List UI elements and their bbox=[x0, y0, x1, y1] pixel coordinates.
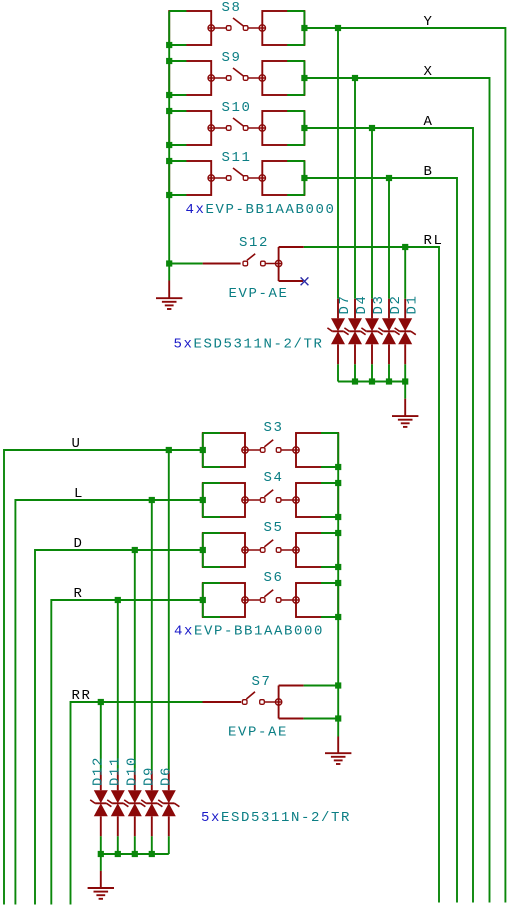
svg-text:4xEVP-BB1AAB000: 4xEVP-BB1AAB000 bbox=[174, 624, 324, 640]
junction diode bus x=372 bbox=[369, 378, 375, 384]
svg-text:S6: S6 bbox=[264, 570, 284, 586]
svg-text:D1: D1 bbox=[404, 294, 420, 314]
wire net U vertical bbox=[3, 449, 5, 904]
junction net B at pin bbox=[301, 175, 307, 181]
wire dropper to D10 bbox=[134, 550, 136, 771]
wire stubs over S6 left box bbox=[203, 583, 220, 617]
wire D7 to gnd bus bbox=[337, 364, 339, 381]
lever S7 bbox=[246, 692, 255, 699]
lever S6 bbox=[264, 590, 273, 597]
wire D9 to gnd bus bbox=[151, 836, 153, 854]
wire net L horizontal bbox=[15, 499, 202, 501]
wire stubs over S5 right box bbox=[321, 533, 338, 567]
TVS diode D1 bbox=[395, 318, 416, 344]
svg-text:RL: RL bbox=[424, 233, 444, 249]
lead D12 bottom bbox=[100, 816, 102, 836]
switch S12 bbox=[203, 247, 304, 281]
terminal S8 contact a bbox=[226, 26, 231, 31]
terminal S6 contact b bbox=[276, 598, 281, 603]
junction net R at pin bbox=[200, 597, 206, 603]
wire net B horizontal bbox=[304, 177, 457, 179]
svg-text:D9: D9 bbox=[141, 766, 157, 786]
junction right bus y=467 bbox=[335, 464, 341, 470]
terminal S11 contact b bbox=[243, 176, 248, 181]
wire dropper to D4 bbox=[354, 78, 356, 299]
lead D6 bottom bbox=[168, 816, 170, 836]
pin circle S11 throw bbox=[259, 175, 265, 181]
switch S4 bbox=[203, 483, 338, 517]
junction net U at pin bbox=[200, 447, 206, 453]
svg-text:S3: S3 bbox=[264, 420, 284, 436]
wire S7 arm top to bus bbox=[304, 685, 339, 687]
switch S9 bbox=[169, 61, 304, 95]
wire D4 to gnd bus bbox=[354, 364, 356, 381]
junction net X dropper bbox=[352, 75, 358, 81]
TVS diode D3 bbox=[361, 318, 382, 344]
TVS diode D6 bbox=[158, 790, 179, 816]
svg-text:S9: S9 bbox=[222, 50, 242, 66]
wire D10 to gnd bus bbox=[134, 836, 136, 854]
TVS diode D10 bbox=[124, 790, 145, 816]
wire dropper to D3 bbox=[371, 128, 373, 299]
ground GND1 left bus bbox=[156, 281, 182, 310]
terminal S4 contact a bbox=[260, 498, 265, 503]
pin circle S6 throw bbox=[293, 597, 299, 603]
svg-text:D4: D4 bbox=[354, 294, 370, 314]
junction right bus y=483 bbox=[335, 480, 341, 486]
wire gnd lead bottom diode bus bbox=[100, 854, 102, 871]
junction net L at pin bbox=[200, 497, 206, 503]
wire stubs over S9 left box bbox=[169, 61, 186, 95]
terminal S8 contact b bbox=[243, 26, 248, 31]
wire dropper to D9 bbox=[151, 500, 153, 771]
wire D12 to gnd bus bbox=[100, 836, 102, 854]
switch S11 bbox=[169, 161, 304, 195]
junction left bus y=111 bbox=[166, 108, 172, 114]
wire net D horizontal bbox=[35, 549, 203, 551]
junction net RR dropper bbox=[98, 699, 104, 705]
wire stubs over S4 left box bbox=[203, 483, 220, 517]
svg-text:EVP-AE: EVP-AE bbox=[229, 286, 289, 302]
lead D4 bottom bbox=[354, 344, 356, 364]
wire D6 to gnd bus bbox=[168, 836, 170, 854]
junction bottom diode bus x=100.8 bbox=[98, 851, 104, 857]
pin circle S9 pole bbox=[208, 75, 214, 81]
lever S10 bbox=[233, 118, 244, 126]
junction right bus y=617 bbox=[335, 614, 341, 620]
terminal S6 contact a bbox=[260, 598, 265, 603]
ground GND2 top diodes bbox=[392, 399, 418, 427]
svg-text:S7: S7 bbox=[252, 674, 272, 690]
ground GND3 right bus bbox=[325, 737, 351, 765]
pin circle S10 throw bbox=[259, 125, 265, 131]
lead D11 bottom bbox=[117, 816, 119, 836]
junction diode bus x=389 bbox=[386, 378, 392, 384]
svg-text:S12: S12 bbox=[239, 235, 269, 251]
svg-text:4xEVP-BB1AAB000: 4xEVP-BB1AAB000 bbox=[186, 202, 336, 218]
wire right bus net bottom bbox=[337, 433, 339, 737]
wire bottom diode ground bus bbox=[101, 853, 169, 855]
lead D7 bottom bbox=[337, 344, 339, 364]
junction right bus y=517 bbox=[335, 514, 341, 520]
wire net B vertical bbox=[456, 177, 458, 902]
lead D11 top bbox=[117, 771, 119, 791]
terminal S3 contact b bbox=[276, 448, 281, 453]
junction net Y dropper bbox=[335, 25, 341, 31]
pin circle S6 pole bbox=[242, 597, 248, 603]
pin circle S11 pole bbox=[208, 175, 214, 181]
wire D2 to gnd bus bbox=[388, 364, 390, 381]
wire stubs over S11 right box bbox=[287, 161, 304, 195]
junction diode bus x=405.2 bbox=[402, 378, 408, 384]
wire net X vertical bbox=[489, 77, 491, 902]
wire stubs over S11 left box bbox=[169, 161, 186, 195]
lead D1 bottom bbox=[404, 344, 406, 364]
junction bottom diode bus x=117.8 bbox=[115, 851, 121, 857]
terminal S5 contact a bbox=[260, 548, 265, 553]
lead D1 top bbox=[404, 299, 406, 319]
svg-text:U: U bbox=[72, 436, 82, 452]
lever S8 bbox=[233, 18, 244, 26]
svg-text:RR: RR bbox=[72, 688, 92, 704]
switch S5 bbox=[203, 533, 338, 567]
svg-text:D: D bbox=[74, 536, 84, 552]
pin circle S3 pole bbox=[242, 447, 248, 453]
svg-text:S4: S4 bbox=[264, 470, 284, 486]
wire net R horizontal bbox=[51, 599, 203, 601]
lever S5 bbox=[264, 540, 273, 547]
svg-text:D2: D2 bbox=[388, 294, 404, 314]
junction net X at pin bbox=[301, 75, 307, 81]
svg-text:S8: S8 bbox=[222, 0, 242, 16]
lead D3 top bbox=[371, 299, 373, 319]
pin circle S12 bbox=[275, 260, 281, 266]
terminal S12 contact a bbox=[243, 261, 248, 266]
wire D11 to gnd bus bbox=[117, 836, 119, 854]
wire net A horizontal bbox=[304, 127, 473, 129]
wire net X horizontal bbox=[304, 77, 489, 79]
terminal S7 contact b bbox=[260, 700, 265, 705]
junction left bus y=45 bbox=[166, 42, 172, 48]
lead D10 bottom bbox=[134, 816, 136, 836]
terminal S4 contact b bbox=[276, 498, 281, 503]
wire dropper to D2 bbox=[388, 178, 390, 299]
lead D12 top bbox=[100, 771, 102, 791]
wire net RL vertical bbox=[438, 246, 440, 902]
junction net U dropper bbox=[166, 447, 172, 453]
wire net U horizontal bbox=[4, 449, 203, 451]
svg-text:S10: S10 bbox=[222, 100, 252, 116]
terminal S12 contact b bbox=[261, 261, 266, 266]
wire stubs over S10 right box bbox=[287, 111, 304, 145]
TVS diode D11 bbox=[107, 790, 128, 816]
junction net Y at pin bbox=[301, 25, 307, 31]
switch S10 bbox=[169, 111, 304, 145]
switch S3 bbox=[203, 433, 338, 467]
wire stubs over S3 left box bbox=[203, 433, 220, 467]
junction net R dropper bbox=[115, 597, 121, 603]
lead D7 top bbox=[337, 299, 339, 319]
junction net RL dropper bbox=[402, 244, 408, 250]
terminal S7 contact a bbox=[242, 700, 247, 705]
pin circle S4 pole bbox=[242, 497, 248, 503]
wire net RL horizontal bbox=[304, 246, 439, 248]
TVS diode D7 bbox=[327, 318, 348, 344]
wire stubs over S3 right box bbox=[321, 433, 338, 467]
wire net RR horizontal bbox=[71, 701, 203, 703]
lead D9 top bbox=[151, 771, 153, 791]
lever S9 bbox=[233, 68, 244, 76]
junction bottom diode bus x=134.8 bbox=[132, 851, 138, 857]
junction right bus y=583 bbox=[335, 580, 341, 586]
wire D1 to gnd bus bbox=[404, 364, 406, 381]
no-connect cross S12 pin bbox=[301, 277, 309, 285]
lead D4 top bbox=[354, 299, 356, 319]
junction left bus y=195 bbox=[166, 192, 172, 198]
svg-text:S5: S5 bbox=[264, 520, 284, 536]
pin circle S5 pole bbox=[242, 547, 248, 553]
junction left bus y=61 bbox=[166, 58, 172, 64]
switch S7 bbox=[203, 686, 304, 719]
wire stubs over S5 left box bbox=[203, 533, 220, 567]
pin circle S4 throw bbox=[293, 497, 299, 503]
lead D2 bottom bbox=[388, 344, 390, 364]
wire dropper to D12 bbox=[100, 702, 102, 771]
svg-text:X: X bbox=[424, 64, 434, 80]
junction net D at pin bbox=[200, 547, 206, 553]
svg-text:L: L bbox=[74, 486, 84, 502]
wire gnd lead top diode bus bbox=[404, 382, 406, 399]
svg-text:5xESD5311N-2/TR: 5xESD5311N-2/TR bbox=[201, 810, 351, 826]
pin circle S3 throw bbox=[293, 447, 299, 453]
wire stubs over S8 right box bbox=[287, 11, 304, 45]
wire net D vertical bbox=[34, 549, 36, 904]
TVS diode D4 bbox=[344, 318, 365, 344]
lead D2 top bbox=[388, 299, 390, 319]
wire net Y vertical bbox=[504, 27, 506, 902]
terminal S10 contact b bbox=[243, 126, 248, 131]
wire left bus net bbox=[168, 11, 170, 280]
wire net RR vertical bbox=[70, 701, 72, 904]
lever S12 bbox=[247, 254, 255, 261]
lever S3 bbox=[264, 440, 273, 447]
junction net B dropper bbox=[386, 175, 392, 181]
pin circle S8 throw bbox=[259, 25, 265, 31]
junction right bus y=567 bbox=[335, 564, 341, 570]
wire top diode ground bus bbox=[338, 381, 405, 383]
wire dropper to D11 bbox=[117, 600, 119, 771]
terminal S9 contact b bbox=[243, 76, 248, 81]
junction left bus y=263.5 bbox=[166, 260, 172, 266]
wire S7 arm bottom to bus bbox=[304, 718, 339, 720]
junction right bus y=533 bbox=[335, 530, 341, 536]
wire stubs over S8 left box bbox=[169, 11, 186, 45]
pin circle S10 pole bbox=[208, 125, 214, 131]
wire stubs over S6 right box bbox=[321, 583, 338, 617]
TVS diode D12 bbox=[90, 790, 111, 816]
wire net R vertical bbox=[50, 599, 52, 904]
lead D9 bottom bbox=[151, 816, 153, 836]
lead D3 bottom bbox=[371, 344, 373, 364]
svg-text:Y: Y bbox=[424, 14, 434, 30]
lead D10 top bbox=[134, 771, 136, 791]
terminal S9 contact a bbox=[226, 76, 231, 81]
wire S12 pole bbox=[169, 263, 202, 265]
wire net A vertical bbox=[472, 127, 474, 902]
ground GND4 bottom diodes bbox=[88, 871, 114, 899]
lever S11 bbox=[233, 168, 244, 176]
junction bottom diode bus x=151.8 bbox=[149, 851, 155, 857]
wire net Y horizontal bbox=[304, 27, 505, 29]
svg-text:5xESD5311N-2/TR: 5xESD5311N-2/TR bbox=[174, 337, 324, 353]
svg-text:D3: D3 bbox=[371, 294, 387, 314]
terminal S3 contact a bbox=[260, 448, 265, 453]
pin circle S5 throw bbox=[293, 547, 299, 553]
junction left bus y=95 bbox=[166, 92, 172, 98]
junction left bus y=161 bbox=[166, 158, 172, 164]
switch S6 bbox=[203, 583, 338, 617]
junction net D dropper bbox=[132, 547, 138, 553]
junction left bus y=145 bbox=[166, 142, 172, 148]
svg-text:D11: D11 bbox=[107, 756, 123, 786]
svg-text:A: A bbox=[424, 114, 434, 130]
junction net L dropper bbox=[149, 497, 155, 503]
svg-text:R: R bbox=[74, 586, 84, 602]
terminal S5 contact b bbox=[276, 548, 281, 553]
wire D3 to gnd bus bbox=[371, 364, 373, 381]
svg-text:S11: S11 bbox=[222, 150, 252, 166]
svg-text:EVP-AE: EVP-AE bbox=[228, 725, 288, 741]
svg-text:B: B bbox=[424, 164, 434, 180]
junction diode bus x=355 bbox=[352, 378, 358, 384]
svg-text:D12: D12 bbox=[90, 756, 106, 786]
wire dropper to D1 bbox=[404, 247, 406, 299]
junction net A at pin bbox=[301, 125, 307, 131]
junction right bus y=718.5 bbox=[335, 715, 341, 721]
TVS diode D9 bbox=[141, 790, 162, 816]
wire stubs over S4 right box bbox=[321, 483, 338, 517]
svg-text:D7: D7 bbox=[337, 294, 353, 314]
pin circle S9 throw bbox=[259, 75, 265, 81]
svg-text:D6: D6 bbox=[158, 766, 174, 786]
terminal S10 contact a bbox=[226, 126, 231, 131]
wire dropper to D7 bbox=[337, 28, 339, 299]
switch S8 bbox=[169, 11, 304, 45]
wire dropper to D6 bbox=[168, 450, 170, 771]
svg-text:D10: D10 bbox=[124, 756, 140, 786]
wire net L vertical bbox=[14, 499, 16, 904]
TVS diode D2 bbox=[378, 318, 399, 344]
terminal S11 contact a bbox=[226, 176, 231, 181]
lead D6 top bbox=[168, 771, 170, 791]
wire stubs over S10 left box bbox=[169, 111, 186, 145]
wire stubs over S9 right box bbox=[287, 61, 304, 95]
pin circle S8 pole bbox=[208, 25, 214, 31]
pin circle S7 bbox=[275, 699, 281, 705]
junction right bus y=685.5 bbox=[335, 682, 341, 688]
junction net A dropper bbox=[369, 125, 375, 131]
lever S4 bbox=[264, 490, 273, 497]
